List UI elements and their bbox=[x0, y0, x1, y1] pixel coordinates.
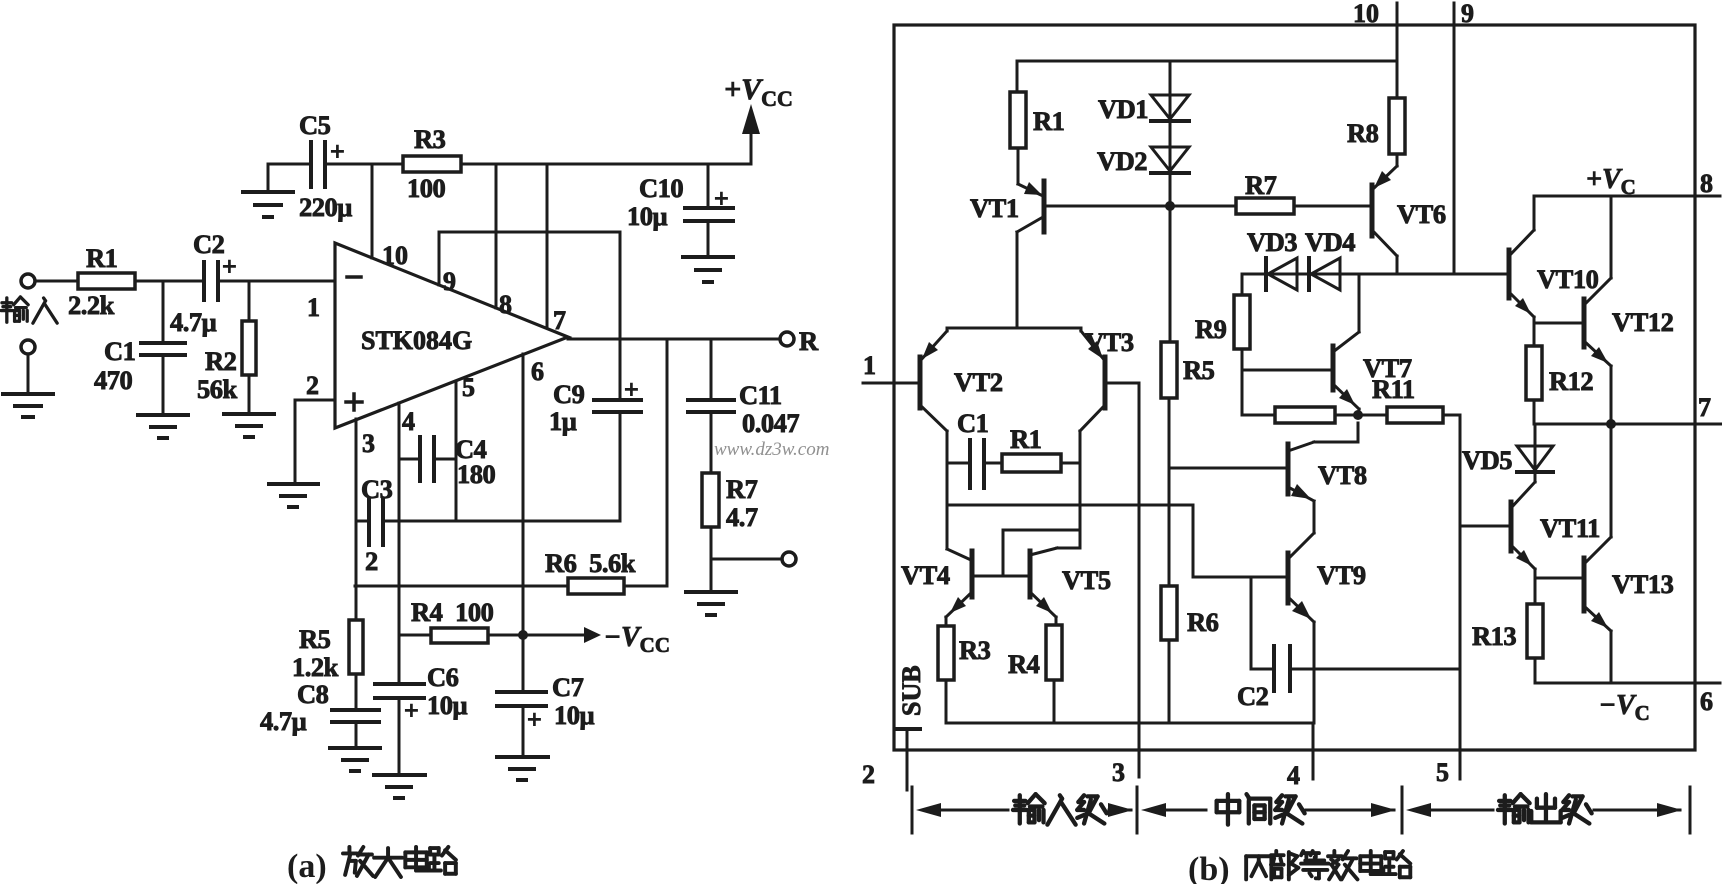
stage arrows input bbox=[916, 803, 941, 817]
C10 branch bbox=[707, 164, 710, 208]
svg-text:C1: C1 bbox=[957, 408, 988, 438]
mirror base line bbox=[972, 575, 1030, 578]
svg-text:100: 100 bbox=[407, 173, 446, 203]
pin 9 tick bbox=[1453, 3, 1456, 274]
+Vc rail bbox=[1534, 195, 1695, 198]
pin 2 stub bbox=[295, 399, 335, 402]
resistor R8 bbox=[1389, 98, 1405, 154]
pin 8 wire bbox=[495, 164, 498, 308]
VT1/VT6 base line bbox=[1044, 205, 1236, 208]
svg-text:4: 4 bbox=[402, 407, 415, 436]
input terminal circle bbox=[21, 274, 35, 288]
svg-text:1.2k: 1.2k bbox=[292, 652, 339, 682]
wire R6 line left bbox=[355, 585, 568, 588]
svg-text:4.7μ: 4.7μ bbox=[260, 706, 307, 736]
C11 branch drop bbox=[710, 339, 713, 400]
svg-text:9: 9 bbox=[1461, 0, 1474, 28]
wire C5 to R3 bbox=[327, 163, 403, 166]
ground (C7) bbox=[497, 755, 548, 759]
R5-R6 mid wire bbox=[1168, 398, 1171, 586]
op-amp U1 STK084G triangle bbox=[335, 243, 568, 428]
resistor R6 bbox=[568, 578, 624, 594]
svg-text:10: 10 bbox=[382, 241, 408, 270]
svg-text:R12: R12 bbox=[1549, 366, 1593, 396]
pin 7 wire bbox=[546, 164, 549, 328]
input label (Chinese: shu-ru) bbox=[1, 297, 28, 322]
diode VD5 bbox=[1534, 424, 1537, 472]
wire R2 to ground bbox=[248, 375, 251, 414]
junction dot output bbox=[1606, 419, 1616, 429]
VT12 base stub bbox=[1534, 322, 1584, 325]
svg-text:56k: 56k bbox=[197, 374, 238, 404]
svg-text:C3: C3 bbox=[361, 474, 393, 504]
svg-text:VT3: VT3 bbox=[1085, 327, 1134, 357]
top rail to +Vcc bbox=[461, 163, 751, 166]
svg-text:+: + bbox=[404, 696, 419, 725]
svg-text:(a): (a) bbox=[287, 848, 327, 884]
svg-text:C7: C7 bbox=[552, 672, 584, 702]
svg-text:10μ: 10μ bbox=[554, 700, 595, 730]
ground (C8) bbox=[330, 746, 380, 750]
IC package border bbox=[894, 25, 1695, 750]
resistor R1 (internal) bbox=[1010, 92, 1026, 148]
svg-text:SUB: SUB bbox=[897, 665, 926, 716]
wire R2 branch bbox=[248, 281, 251, 321]
capacitor C2 bbox=[202, 262, 206, 300]
pin 9 wire bbox=[438, 232, 441, 285]
+Vcc arrow bbox=[742, 104, 760, 134]
svg-text:R1: R1 bbox=[1033, 106, 1064, 136]
svg-text:2: 2 bbox=[365, 546, 378, 576]
resistor R4 bbox=[431, 628, 488, 643]
svg-text:470: 470 bbox=[94, 365, 133, 395]
resistor R7 bbox=[702, 473, 719, 527]
svg-text:6: 6 bbox=[531, 357, 544, 386]
svg-text:VT8: VT8 bbox=[1318, 460, 1367, 490]
resistor R12 bbox=[1526, 346, 1542, 400]
capacitor C8 bbox=[332, 708, 379, 712]
wire R4 right bbox=[488, 634, 523, 637]
svg-text:R6: R6 bbox=[1187, 607, 1219, 637]
svg-text:C2: C2 bbox=[1237, 681, 1269, 711]
svg-text:VD3: VD3 bbox=[1247, 227, 1297, 257]
wire R4 left stub bbox=[399, 634, 431, 637]
svg-text:C8: C8 bbox=[297, 679, 329, 709]
ground (R2) bbox=[224, 412, 274, 416]
op-amp minus sign pin1 bbox=[347, 275, 361, 279]
pin 4 wire down bbox=[398, 403, 401, 684]
ground (C10) bbox=[683, 255, 733, 259]
transistor VT7 bbox=[1331, 346, 1336, 390]
ground (R7) bbox=[686, 590, 736, 594]
ground (pin 2) bbox=[269, 482, 318, 486]
svg-text:7: 7 bbox=[1698, 393, 1711, 422]
input lower terminal circle bbox=[21, 340, 35, 354]
ground (C5) bbox=[243, 190, 293, 194]
svg-text:R: R bbox=[799, 326, 819, 356]
svg-text:C2: C2 bbox=[193, 229, 225, 259]
svg-text:VD5: VD5 bbox=[1462, 445, 1512, 475]
wire C2 to op-amp pin 1 bbox=[220, 280, 335, 283]
input stage mid line bbox=[947, 504, 1193, 507]
wire input to R1 bbox=[35, 280, 78, 283]
transistor VT2 bbox=[918, 357, 923, 408]
svg-text:4: 4 bbox=[1287, 761, 1300, 790]
pin 3 tick (VT3 base line) bbox=[1138, 383, 1141, 777]
transistor VT6 bbox=[1370, 185, 1375, 236]
svg-text:4.7: 4.7 bbox=[726, 502, 758, 532]
svg-text:C10: C10 bbox=[639, 173, 683, 203]
pin 2 SUB terminal bbox=[897, 727, 920, 731]
feedback node riser from output bbox=[666, 339, 669, 586]
ground (input) bbox=[3, 392, 53, 396]
svg-text:R6 5.6k: R6 5.6k bbox=[545, 548, 636, 578]
svg-text:5: 5 bbox=[1436, 758, 1449, 787]
svg-text:220μ: 220μ bbox=[299, 192, 352, 222]
svg-text:9: 9 bbox=[443, 267, 456, 296]
svg-text:0.047: 0.047 bbox=[742, 408, 799, 438]
wire C4 stubs bbox=[399, 458, 418, 461]
transistor VT4 bbox=[970, 551, 975, 597]
pin 6 stub bbox=[1695, 682, 1720, 685]
pin5/C2 riser bbox=[1459, 415, 1462, 669]
junction dot VT7 emitter bbox=[1353, 410, 1363, 420]
wire to lower output terminal bbox=[711, 558, 782, 561]
svg-text:2.2k: 2.2k bbox=[68, 290, 115, 320]
resistor R1 bbox=[78, 273, 135, 289]
-Vcc arrow wire bbox=[523, 634, 584, 637]
capacitor C9 bbox=[594, 398, 641, 402]
svg-text:VD2: VD2 bbox=[1097, 146, 1147, 176]
wire R1 to C2 bbox=[135, 280, 202, 283]
svg-text:R9: R9 bbox=[1195, 314, 1227, 344]
R9 lower wire bbox=[1241, 349, 1244, 415]
pin7 output rail bbox=[1534, 423, 1695, 426]
svg-text:10μ: 10μ bbox=[427, 690, 468, 720]
stage label middle stage bbox=[1217, 794, 1240, 825]
svg-text:R5: R5 bbox=[299, 624, 331, 654]
svg-text:180: 180 bbox=[457, 459, 496, 489]
svg-text:+: + bbox=[330, 137, 345, 166]
diode string lead bbox=[1169, 61, 1172, 206]
svg-text:+: + bbox=[222, 252, 237, 281]
svg-text:(b): (b) bbox=[1188, 851, 1230, 884]
capacitor C2 internal bbox=[1250, 577, 1253, 669]
svg-text:VT4: VT4 bbox=[901, 560, 950, 590]
diode VD3 bbox=[1264, 258, 1268, 290]
capacitor C10 bbox=[685, 206, 733, 210]
svg-text:VD4: VD4 bbox=[1305, 227, 1355, 257]
capacitor C5 bbox=[309, 142, 313, 187]
svg-text:8: 8 bbox=[499, 290, 512, 319]
svg-text:3: 3 bbox=[1112, 758, 1125, 787]
svg-text:10: 10 bbox=[1353, 0, 1379, 28]
capacitor C4 bbox=[418, 437, 422, 481]
svg-text:R11: R11 bbox=[1372, 374, 1415, 404]
svg-text:R1: R1 bbox=[1010, 424, 1041, 454]
pin 3 wire down bbox=[355, 419, 358, 620]
transistor VT13 bbox=[1582, 558, 1587, 611]
pin 1 stub bbox=[863, 382, 920, 385]
diode VD4 bbox=[1307, 258, 1311, 290]
stage arrows middle bbox=[1141, 803, 1166, 817]
svg-text:R7: R7 bbox=[726, 474, 758, 504]
svg-text:VT1: VT1 bbox=[970, 193, 1019, 223]
ground (C6) bbox=[374, 773, 425, 777]
transistor VT5 bbox=[1028, 551, 1033, 597]
svg-text:VT11: VT11 bbox=[1540, 513, 1600, 543]
stage arrows output bbox=[1406, 803, 1431, 817]
wire C5 ground drop bbox=[267, 164, 270, 192]
capacitor C11 bbox=[688, 398, 734, 402]
svg-text:10μ: 10μ bbox=[627, 201, 668, 231]
pin 10 wire bbox=[371, 164, 374, 258]
R5 hang wire bbox=[1169, 206, 1172, 342]
resistor R10 bbox=[1275, 407, 1335, 423]
transistor VT11 bbox=[1509, 502, 1514, 551]
VT8 base line bbox=[1169, 467, 1288, 470]
svg-text:2: 2 bbox=[862, 760, 875, 789]
wire C3 left stub bbox=[356, 520, 367, 523]
diode line left corner bbox=[1241, 274, 1244, 295]
capacitor C7 bbox=[497, 690, 546, 694]
capacitor C6 bbox=[375, 682, 424, 686]
resistor R4 bbox=[1046, 625, 1062, 680]
capacitor C3 bbox=[367, 500, 371, 545]
svg-text:8: 8 bbox=[1700, 169, 1713, 198]
resistor R9 bbox=[1234, 295, 1250, 349]
svg-text:VT10: VT10 bbox=[1537, 264, 1599, 294]
resistor R5 bbox=[1161, 342, 1177, 398]
transistor VT10 bbox=[1507, 250, 1512, 298]
pin 6 wire down bbox=[522, 354, 525, 692]
op-amp plus sign pin2 bbox=[346, 400, 362, 404]
wire R7 to ground bbox=[710, 527, 713, 592]
pin 7 stub bbox=[1695, 423, 1721, 426]
wire to ground bbox=[27, 354, 30, 394]
transistor VT12 bbox=[1582, 299, 1587, 347]
top rail segment C5 left bbox=[268, 163, 309, 166]
svg-text:R2: R2 bbox=[205, 346, 237, 376]
wire C3 to C9 bottom bbox=[385, 520, 620, 523]
svg-text:R3: R3 bbox=[959, 635, 991, 665]
svg-text:5: 5 bbox=[462, 373, 475, 402]
resistor R1 internal top lead bbox=[1016, 61, 1019, 92]
svg-text:7: 7 bbox=[553, 306, 566, 335]
node C1 branch wire bbox=[162, 281, 165, 343]
capacitor C1 internal bbox=[947, 462, 968, 465]
svg-text:R7: R7 bbox=[1245, 170, 1277, 200]
stage label input stage bbox=[1013, 794, 1045, 823]
resistor R3 bbox=[403, 156, 461, 172]
svg-text:VT6: VT6 bbox=[1397, 199, 1446, 229]
-Vc rail bbox=[1535, 682, 1695, 685]
junction dot VD2/base bbox=[1165, 201, 1175, 211]
svg-text:2: 2 bbox=[306, 371, 319, 400]
svg-text:R1: R1 bbox=[86, 243, 117, 273]
capacitor C1 bbox=[141, 341, 185, 345]
svg-text:1μ: 1μ bbox=[549, 406, 577, 436]
+Vcc riser bbox=[750, 112, 753, 164]
stage label output stage bbox=[1498, 794, 1530, 823]
wire R6 right bbox=[624, 585, 667, 588]
resistor R6b bbox=[1161, 586, 1177, 640]
pin4 ground rail bbox=[946, 722, 1313, 725]
pin 8 stub bbox=[1695, 195, 1720, 198]
transistor VT8 bbox=[1286, 444, 1291, 494]
svg-text:4.7μ: 4.7μ bbox=[170, 307, 217, 337]
pin 10 tick bbox=[1396, 3, 1399, 61]
svg-text:3: 3 bbox=[362, 429, 375, 458]
svg-text:1: 1 bbox=[307, 293, 320, 322]
svg-text:+: + bbox=[624, 375, 639, 404]
pin 5 wire down bbox=[455, 381, 458, 521]
svg-text:C5: C5 bbox=[299, 110, 331, 140]
resistor R3 bbox=[938, 626, 954, 680]
junction dot -Vcc node bbox=[518, 630, 528, 640]
resistor R11 bbox=[1387, 407, 1443, 423]
output wire bbox=[568, 338, 780, 341]
resistor R5 bbox=[349, 620, 363, 674]
svg-text:VD1: VD1 bbox=[1098, 94, 1148, 124]
svg-text:R5: R5 bbox=[1183, 355, 1215, 385]
pin 4 tick bbox=[1312, 723, 1315, 779]
resistor R2 bbox=[242, 321, 256, 375]
mirror base tie bbox=[1002, 530, 1005, 576]
resistor R8 top wire bbox=[1396, 61, 1399, 98]
svg-text:6: 6 bbox=[1700, 687, 1713, 716]
resistor R13 bbox=[1527, 604, 1543, 658]
driver line VD3..VT10 bbox=[1242, 273, 1509, 276]
resistor R7 bbox=[1236, 198, 1294, 214]
lower output terminal circle bbox=[782, 552, 796, 566]
stage separator lines bbox=[911, 787, 914, 833]
diode VD1 bbox=[1151, 95, 1189, 119]
output terminal circle R bbox=[780, 332, 794, 346]
pin 5 tick bbox=[1459, 669, 1462, 779]
svg-text:R3: R3 bbox=[414, 124, 446, 154]
internal top rail bbox=[1017, 60, 1397, 63]
VT13 base stub bbox=[1535, 577, 1584, 580]
svg-text:+: + bbox=[527, 705, 542, 734]
svg-text:C1: C1 bbox=[104, 336, 135, 366]
svg-text:STK084G: STK084G bbox=[361, 326, 472, 355]
svg-text:R4 100: R4 100 bbox=[411, 597, 494, 627]
svg-text:VT12: VT12 bbox=[1612, 307, 1674, 337]
svg-text:R8: R8 bbox=[1347, 118, 1379, 148]
svg-text:VT9: VT9 bbox=[1317, 560, 1366, 590]
VAS drive corner bbox=[1192, 505, 1195, 577]
svg-text:VT2: VT2 bbox=[954, 367, 1003, 397]
svg-text:VT13: VT13 bbox=[1612, 569, 1674, 599]
diff pair emitter rail bbox=[947, 327, 1081, 330]
svg-text:R4: R4 bbox=[1008, 649, 1040, 679]
wire C1 to ground bbox=[162, 355, 165, 415]
svg-text:VT5: VT5 bbox=[1062, 565, 1111, 595]
svg-text:C11: C11 bbox=[739, 380, 782, 410]
transistor VT3 bbox=[1103, 357, 1108, 408]
transistor VT1 bbox=[1042, 181, 1047, 232]
svg-text:+: + bbox=[714, 184, 729, 213]
ground (C1) bbox=[138, 413, 188, 417]
svg-text:C9: C9 bbox=[553, 379, 585, 409]
resistor R1b parallel bbox=[1002, 454, 1061, 472]
diode VD2 bbox=[1151, 147, 1189, 171]
svg-text:C6: C6 bbox=[427, 662, 459, 692]
svg-text:www.dz3w.com: www.dz3w.com bbox=[714, 439, 829, 460]
wire R5 to C8 bbox=[355, 674, 358, 710]
svg-text:R13: R13 bbox=[1472, 621, 1516, 651]
svg-text:1: 1 bbox=[863, 351, 876, 380]
transistor VT9 bbox=[1286, 553, 1291, 603]
